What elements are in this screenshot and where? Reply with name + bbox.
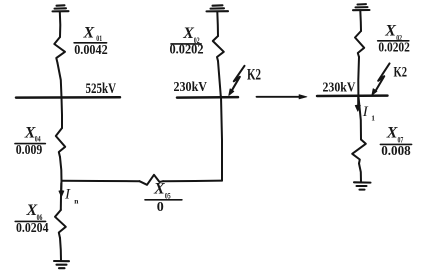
- svg-text:I: I: [64, 186, 71, 202]
- fault K2 (middle): [229, 66, 245, 96]
- resistor X05: [140, 175, 164, 185]
- wire: top-left ground stem: [59, 12, 62, 38]
- resistor X01: [54, 37, 65, 63]
- current arrow In: [59, 183, 64, 197]
- label X06 / 0.0204: [16, 202, 49, 235]
- wire: X04 down to junction: [60, 157, 62, 181]
- resistor X03: [213, 36, 224, 61]
- wire: X03 to 230kV bus: [218, 61, 221, 97]
- svg-text:1: 1: [371, 113, 375, 122]
- wire: X02 to right bus: [357, 57, 360, 96]
- resistor X06: [55, 210, 66, 238]
- label X02 / 0.0202: [378, 23, 410, 55]
- label X04 / 0.009: [16, 125, 43, 157]
- arrow (circuit reduction): [257, 95, 308, 99]
- svg-text:230kV: 230kV: [174, 80, 208, 95]
- resistor X04: [56, 128, 65, 157]
- svg-text:230kV: 230kV: [323, 80, 356, 95]
- wire: X07 to bottom-right ground: [359, 164, 361, 182]
- svg-text:0.0204: 0.0204: [16, 220, 49, 235]
- ground (bottom right): [354, 182, 371, 189]
- bus 230kV (right): [317, 94, 388, 97]
- wire: top-middle ground stem: [216, 12, 219, 37]
- current arrow I1: [355, 97, 360, 111]
- wire: middle bus down to tie: [221, 97, 222, 181]
- svg-text:0.0042: 0.0042: [74, 42, 108, 57]
- resistor X07: [352, 140, 366, 164]
- svg-text:0.0202: 0.0202: [378, 40, 410, 55]
- svg-text:05: 05: [165, 191, 171, 200]
- label X07 / 0.008: [381, 125, 411, 158]
- svg-text:525kV: 525kV: [86, 81, 117, 97]
- svg-text:X: X: [83, 25, 95, 42]
- svg-text:X: X: [153, 180, 165, 197]
- wire: X06 to bottom ground: [60, 238, 61, 261]
- wire: bottom tie (left segment): [62, 180, 140, 182]
- label In: [64, 186, 79, 205]
- bus 525kV: [16, 96, 120, 99]
- svg-text:X: X: [182, 25, 194, 42]
- svg-text:K2: K2: [247, 67, 261, 84]
- svg-text:K2: K2: [394, 65, 408, 81]
- svg-text:n: n: [74, 196, 79, 205]
- svg-text:I: I: [362, 104, 369, 120]
- wire: top-right ground stem: [359, 10, 362, 31]
- svg-text:0: 0: [157, 200, 164, 215]
- svg-text:X: X: [386, 125, 398, 142]
- ground (top left): [53, 5, 69, 11]
- wire: right bus down to X07: [358, 96, 361, 140]
- label X05 / 0: [153, 180, 171, 215]
- wire: bus to X04: [61, 98, 64, 129]
- wire: junction to X06: [60, 181, 63, 210]
- wire: X01 to 525kV bus: [58, 63, 62, 98]
- wire: bottom tie (right segment): [163, 180, 222, 183]
- svg-text:X: X: [384, 23, 396, 40]
- label X03 / 0.0202: [170, 25, 204, 56]
- label X01 / 0.0042: [74, 25, 108, 58]
- resistor X02: [355, 31, 364, 57]
- ground (top right): [353, 4, 370, 10]
- fault K2 (right): [372, 64, 390, 96]
- label I1: [362, 104, 375, 122]
- ground (bottom left): [54, 261, 69, 268]
- svg-text:0.008: 0.008: [381, 143, 411, 158]
- bus 230kV (middle): [177, 96, 238, 99]
- ground (top middle): [207, 5, 229, 11]
